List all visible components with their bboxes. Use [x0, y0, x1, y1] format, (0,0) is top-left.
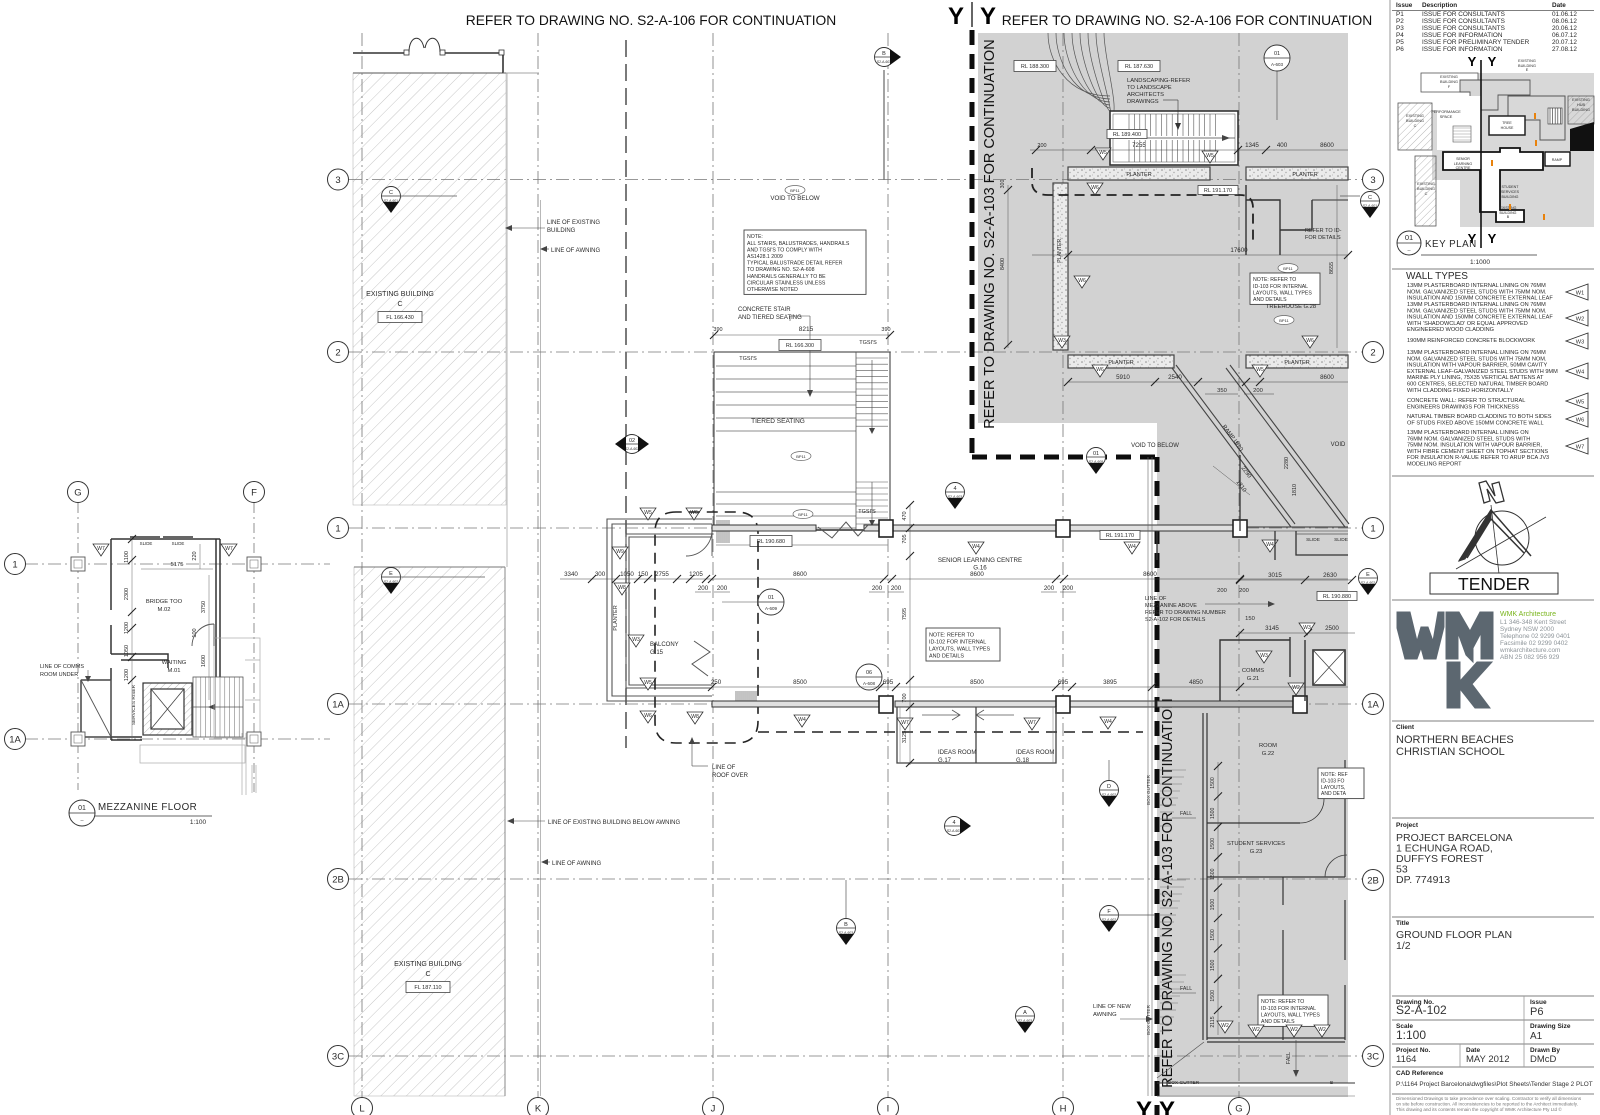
svg-text:This drawing and its contents: This drawing and its contents remain the… [1396, 1106, 1562, 1112]
slide door row1 grey [1296, 533, 1348, 535]
svg-text:FALL: FALL [1180, 811, 1192, 817]
mezz interior dims [124, 535, 213, 740]
svg-text:B: B [882, 51, 886, 57]
line of roof over dashed rect [655, 512, 758, 743]
svg-text:AND DETAILS: AND DETAILS [1253, 297, 1287, 303]
svg-text:SERVICES: SERVICES [1501, 190, 1520, 194]
svg-text:27.08.12: 27.08.12 [1552, 46, 1577, 53]
svg-text:GROUND FLOOR PLAN: GROUND FLOOR PLAN [1396, 929, 1512, 941]
svg-text:REFER TO DRAWING NO. S2-A-106: REFER TO DRAWING NO. S2-A-106 FOR CONTIN… [466, 13, 837, 28]
svg-text:200: 200 [698, 585, 709, 592]
grid line 2 [349, 351, 1362, 353]
svg-text:DP. 774913: DP. 774913 [1396, 874, 1450, 886]
svg-text:Y: Y [1136, 1097, 1152, 1115]
svg-text:HANDRAILS GENERALLY TO BE: HANDRAILS GENERALLY TO BE [747, 274, 826, 280]
svg-text:150: 150 [1245, 616, 1255, 622]
svg-text:Y: Y [1488, 231, 1497, 246]
concrete stair annotation [738, 307, 813, 397]
svg-text:W3: W3 [1058, 338, 1066, 344]
svg-text:Telephone 02 9299 0401: Telephone 02 9299 0401 [1500, 633, 1571, 640]
svg-text:wmkarchitecture.com: wmkarchitecture.com [1499, 647, 1560, 654]
svg-text:1:100: 1:100 [1396, 1028, 1426, 1042]
svg-text:TO LANDSCAPE: TO LANDSCAPE [1127, 85, 1172, 91]
svg-text:W9: W9 [616, 549, 624, 555]
svg-text:8400: 8400 [1000, 258, 1006, 270]
svg-text:200: 200 [1239, 588, 1249, 594]
svg-text:76MM NOM. GALVANIZED STEEL: 76MM NOM. GALVANIZED STEEL STUDS WITH [1407, 436, 1530, 442]
section marker B top [875, 48, 902, 67]
svg-text:01: 01 [1405, 233, 1413, 242]
comms room below [81, 680, 111, 737]
grid line I [887, 33, 889, 1098]
svg-text:LAYOUTS, WALL TYPES: LAYOUTS, WALL TYPES [1261, 1012, 1320, 1018]
client block [1396, 724, 1514, 758]
grid line 3 [349, 179, 1362, 181]
planter strip row2 right [1246, 355, 1348, 368]
issue table [1392, 2, 1594, 53]
svg-text:W6: W6 [644, 713, 652, 719]
svg-text:1164: 1164 [1396, 1054, 1416, 1065]
vertical dims right 8400 [1000, 180, 1012, 349]
svg-text:S2-A-603: S2-A-603 [877, 60, 891, 64]
corridor wall vertical [1203, 713, 1207, 1040]
wall type W5 [1407, 393, 1588, 410]
svg-text:W2: W2 [1576, 317, 1584, 323]
svg-text:OF STUDS FIXED ABOVE 150MM: OF STUDS FIXED ABOVE 150MM CONCRETE WALL [1407, 420, 1544, 426]
svg-text:DMcD: DMcD [1530, 1054, 1557, 1065]
svg-text:NOTE: REFER TO: NOTE: REFER TO [1253, 277, 1296, 283]
svg-text:06.07.12: 06.07.12 [1552, 32, 1577, 39]
grid bubble 3 right [1363, 169, 1384, 190]
grid bubble I bottom [878, 1098, 899, 1115]
svg-text:S2-A-603: S2-A-603 [947, 829, 961, 833]
svg-text:20.06.12: 20.06.12 [1552, 25, 1577, 32]
ramp dims [1213, 465, 1252, 495]
divider client [1392, 720, 1594, 722]
svg-text:W2: W2 [1292, 685, 1300, 691]
svg-text:KEY PLAN: KEY PLAN [1425, 239, 1477, 250]
svg-text:CONCRETE WALL: REFER TO ST: CONCRETE WALL: REFER TO STRUCTURAL [1407, 398, 1525, 404]
svg-text:PLANTER: PLANTER [1108, 360, 1133, 366]
glazing block balcony bottom [736, 691, 756, 706]
mezz grid line G [77, 503, 79, 790]
svg-text:INSULATION WITH VAPOUR BARR: INSULATION WITH VAPOUR BARRIER, 50MM CAV… [1407, 363, 1547, 369]
drawing no block [1396, 996, 1547, 1020]
svg-text:E: E [1366, 572, 1370, 578]
section marker 01 void [1087, 448, 1106, 475]
section marker F [1100, 906, 1119, 933]
WMK architecture text [1499, 611, 1571, 661]
svg-text:LINE OF: LINE OF [1145, 596, 1167, 602]
svg-text:NOTE:: NOTE: [747, 234, 763, 240]
svg-text:2755: 2755 [655, 571, 669, 578]
svg-text:1500: 1500 [1210, 929, 1216, 941]
section marker E right [1359, 569, 1378, 596]
mezz grid node squares [71, 557, 85, 571]
svg-text:2115: 2115 [1210, 1016, 1216, 1027]
svg-text:BP11: BP11 [796, 454, 806, 459]
RL 188.300 [1014, 61, 1056, 72]
svg-text:WITH CLADDING FIXED HORIZON: WITH CLADDING FIXED HORIZONTALLY [1407, 388, 1514, 394]
svg-text:COMMS: COMMS [1242, 668, 1264, 674]
svg-text:LAYOUTS,: LAYOUTS, [1321, 785, 1345, 791]
grid bubble J bottom [703, 1098, 724, 1115]
svg-text:INSULATION AND 150MM CONCRE: INSULATION AND 150MM CONCRETE EXTERNAL L… [1407, 296, 1553, 302]
svg-text:W5: W5 [1576, 400, 1584, 406]
svg-text:CIRCULAR STAINLESS UNLESS: CIRCULAR STAINLESS UNLESS [747, 280, 826, 286]
grid bubble 2 left [328, 342, 349, 363]
svg-text:06: 06 [866, 670, 872, 676]
svg-text:MAY 2012: MAY 2012 [1466, 1054, 1509, 1065]
svg-text:FOR DETAILS: FOR DETAILS [1305, 235, 1341, 241]
svg-text:S2-A-102 FOR DETAILS: S2-A-102 FOR DETAILS [1145, 617, 1206, 623]
grid bubble G bottom [1229, 1098, 1250, 1115]
ideas room G.17 label [938, 750, 976, 764]
svg-text:1050: 1050 [124, 645, 130, 657]
svg-text:8600: 8600 [1143, 571, 1157, 578]
svg-text:Drawn By: Drawn By [1530, 1047, 1560, 1054]
svg-text:13MM PLASTERBOARD INTERNAL: 13MM PLASTERBOARD INTERNAL LINING ON 76M… [1407, 350, 1546, 356]
vertical dims 8655 [1329, 185, 1337, 348]
svg-text:C: C [389, 190, 393, 196]
planter strip top left [1068, 167, 1210, 180]
svg-text:TIERED SEATING: TIERED SEATING [751, 418, 805, 425]
svg-text:D: D [1107, 784, 1111, 790]
svg-text:W6: W6 [1091, 185, 1099, 191]
svg-text:1600: 1600 [201, 655, 207, 667]
grid line 2B [349, 878, 1362, 880]
TGSI labels [739, 340, 877, 515]
mezz stairs [193, 677, 243, 737]
grid bubble K bottom [528, 1098, 549, 1115]
svg-text:13MM PLASTERBOARD INTERNAL: 13MM PLASTERBOARD INTERNAL LINING ON [1407, 430, 1529, 436]
svg-text:C: C [425, 971, 430, 978]
svg-text:A1: A1 [1530, 1031, 1543, 1042]
svg-text:AND DETAILS: AND DETAILS [1261, 1019, 1295, 1025]
svg-text:17600: 17600 [1230, 247, 1248, 254]
svg-text:BUILDING: BUILDING [1502, 195, 1519, 199]
glazing block row1/colJ [717, 520, 729, 543]
svg-text:W4: W4 [1128, 544, 1136, 550]
svg-text:LAYOUTS, WALL TYPES: LAYOUTS, WALL TYPES [1253, 290, 1312, 296]
fine print [1396, 1096, 1582, 1112]
grid bubble 1 right [1363, 518, 1384, 539]
svg-text:W4: W4 [1576, 370, 1584, 376]
section line 02 [625, 40, 627, 748]
svg-text:VOID TO BELOW: VOID TO BELOW [1131, 443, 1179, 449]
svg-text:IDEAS ROOM: IDEAS ROOM [1016, 750, 1054, 756]
svg-text:TGSI'S: TGSI'S [859, 340, 877, 346]
student services walls [1207, 760, 1345, 1042]
svg-text:WITH FIBRE CEMENT SHEET ON: WITH FIBRE CEMENT SHEET ON TOPHAT SECTIO… [1407, 449, 1548, 455]
grid bubble 3C right [1363, 1046, 1384, 1067]
section marker A bottom [1016, 1007, 1035, 1034]
svg-text:Dimensioned Drawings to take p: Dimensioned Drawings to take precedence … [1396, 1096, 1582, 1101]
svg-text:PERFORMANCE: PERFORMANCE [1431, 110, 1461, 114]
svg-text:W7: W7 [901, 720, 909, 726]
svg-text:CENTRE: CENTRE [1456, 166, 1471, 170]
svg-text:RL 188.300: RL 188.300 [1021, 64, 1049, 70]
RL 191.170 mid [1100, 531, 1140, 540]
svg-text:600 CENTRES, SELECTED NATUR: 600 CENTRES, SELECTED NATURAL TIMBER BOA… [1407, 382, 1548, 388]
svg-text:BP11: BP11 [1283, 266, 1293, 271]
svg-text:W7: W7 [1028, 720, 1036, 726]
svg-text:695: 695 [1058, 679, 1069, 686]
svg-text:W3: W3 [632, 637, 640, 643]
svg-text:P6: P6 [1530, 1006, 1543, 1018]
existing building C label (top) [366, 291, 434, 323]
svg-text:3: 3 [1370, 175, 1375, 186]
svg-text:BP11: BP11 [790, 188, 800, 193]
svg-text:W2: W2 [1290, 1027, 1298, 1033]
svg-text:200: 200 [1037, 143, 1046, 149]
grey band below box gutter [1157, 1087, 1348, 1098]
svg-text:1/2: 1/2 [1396, 940, 1411, 952]
svg-text:WMK Architecture: WMK Architecture [1500, 611, 1556, 618]
svg-text:W3: W3 [1576, 340, 1584, 346]
svg-text:NOTE: REFER TO: NOTE: REFER TO [929, 632, 974, 638]
svg-text:WAITING: WAITING [162, 660, 187, 666]
svg-text:BP11: BP11 [1279, 318, 1289, 323]
mezz grid bubbles [68, 482, 89, 503]
landscape stair [1110, 111, 1238, 165]
svg-text:300: 300 [595, 571, 606, 578]
svg-text:PLANTER: PLANTER [613, 605, 619, 630]
svg-text:RL 190.680: RL 190.680 [757, 539, 785, 545]
svg-text:1: 1 [335, 523, 340, 534]
svg-text:1500: 1500 [1210, 868, 1216, 880]
svg-text:W4: W4 [798, 717, 806, 723]
svg-text:SENIOR LEARNING CENTRE: SENIOR LEARNING CENTRE [938, 557, 1022, 564]
tender box [1430, 573, 1558, 594]
section line B vertical top [883, 70, 885, 180]
svg-text:INSULATION AND 150MM CONCRE: INSULATION AND 150MM CONCRETE EXTERNAL L… [1407, 315, 1553, 321]
svg-text:EXTERNAL LEAF-GALVANIZED STE: EXTERNAL LEAF-GALVANIZED STEEL STUDS WIT… [1407, 369, 1558, 375]
grey paved terrace top right [978, 33, 1348, 423]
svg-text:20.07.12: 20.07.12 [1552, 39, 1577, 46]
svg-text:Y: Y [1488, 54, 1497, 69]
svg-text:350: 350 [1217, 388, 1227, 394]
svg-text:ISSUE FOR CONSULTANTS: ISSUE FOR CONSULTANTS [1422, 25, 1505, 32]
wall type W4 [1407, 350, 1588, 394]
W markers row1/1A [968, 542, 984, 554]
row1 wall window zigzag [818, 522, 868, 538]
svg-text:1500: 1500 [1210, 777, 1216, 789]
section marker E left [382, 568, 401, 595]
svg-text:A-603: A-603 [1271, 62, 1284, 67]
planter vertical [1053, 183, 1068, 350]
svg-text:P4: P4 [1396, 32, 1404, 39]
svg-text:3C: 3C [1367, 1051, 1379, 1062]
svg-text:ISSUE FOR CONSULTANTS: ISSUE FOR CONSULTANTS [1422, 18, 1505, 25]
svg-text:BOX GUTTER: BOX GUTTER [1146, 774, 1151, 805]
WMK logo [1397, 612, 1493, 708]
title panel divider [1389, 0, 1391, 1115]
line of existing building note [505, 220, 600, 234]
svg-text:4: 4 [952, 820, 955, 826]
existing building C label (bottom) [394, 961, 462, 993]
svg-text:1200: 1200 [124, 669, 130, 681]
svg-text:150: 150 [638, 571, 649, 578]
svg-text:W3: W3 [1303, 625, 1311, 631]
svg-text:2: 2 [1370, 347, 1375, 358]
svg-text:BOX GUTTER: BOX GUTTER [1168, 1080, 1200, 1086]
svg-text:P6: P6 [1396, 46, 1404, 53]
mezzanine above dashed [1032, 168, 1253, 240]
line of awning (vertical) [540, 200, 542, 1096]
section marker 4 mid [946, 483, 965, 510]
svg-text:ID-103 FO: ID-103 FO [1321, 778, 1344, 784]
senior learning centre label [938, 557, 1022, 572]
tiered seating block [714, 352, 890, 545]
hatch ticks gutter [1160, 770, 1186, 1031]
svg-text:Date: Date [1466, 1047, 1480, 1054]
svg-text:FALL: FALL [1286, 1052, 1292, 1064]
svg-text:W5: W5 [1099, 150, 1107, 156]
svg-text:J: J [711, 1103, 716, 1114]
svg-text:C: C [1425, 192, 1428, 196]
oval tags seating [791, 452, 811, 461]
svg-text:S2-A-602: S2-A-602 [625, 447, 639, 451]
svg-text:ALL STAIRS, BALUSTRADES, HA: ALL STAIRS, BALUSTRADES, HANDRAILS [747, 241, 850, 247]
svg-text:390: 390 [881, 327, 890, 333]
svg-text:TYPICAL BALUSTRADE DETAIL R: TYPICAL BALUSTRADE DETAIL REFER [747, 261, 843, 267]
svg-text:L1 346-348 Kent Street: L1 346-348 Kent Street [1500, 619, 1566, 626]
wall type W1 [1407, 283, 1588, 302]
divider project [1392, 817, 1594, 819]
svg-text:1: 1 [1370, 523, 1375, 534]
grid bubble L bottom [352, 1098, 373, 1115]
svg-text:G.21: G.21 [1247, 676, 1260, 682]
mezz title [69, 800, 212, 826]
landscape contour fan [1048, 33, 1114, 117]
svg-text:13MM PLASTERBOARD INTERNAL: 13MM PLASTERBOARD INTERNAL LINING ON 76M… [1407, 283, 1546, 289]
grid bubble 1A right [1363, 694, 1384, 715]
svg-text:VOID TO BELOW: VOID TO BELOW [770, 195, 819, 202]
svg-text:8600: 8600 [1320, 374, 1334, 381]
section marker D [1100, 781, 1119, 808]
svg-text:W5: W5 [1206, 153, 1214, 159]
svg-text:W5: W5 [1256, 367, 1264, 373]
project no block [1396, 1044, 1560, 1067]
box gutter labels [1146, 774, 1333, 1086]
svg-text:FL 166.430: FL 166.430 [386, 315, 414, 321]
svg-text:3015: 3015 [1268, 572, 1282, 579]
svg-text:8600: 8600 [970, 571, 984, 578]
ideas rooms G.17 G.18 [897, 707, 1056, 763]
svg-text:W2: W2 [1318, 1027, 1326, 1033]
svg-text:W1: W1 [1576, 291, 1584, 297]
svg-text:WITH ‘SHADOWCLAD’ OR EQUAL: WITH ‘SHADOWCLAD’ OR EQUAL APPROVED [1407, 321, 1528, 327]
row 1A wall [712, 701, 1297, 707]
svg-text:--: -- [80, 818, 84, 824]
svg-text:ABN 25 082 956 929: ABN 25 082 956 929 [1500, 654, 1560, 661]
svg-text:01.06.12: 01.06.12 [1552, 11, 1577, 18]
existing building C (bottom) hatched [354, 567, 505, 1096]
dim chain row1A [708, 679, 1348, 691]
svg-text:W3: W3 [1260, 653, 1268, 659]
svg-text:1500: 1500 [1210, 899, 1216, 911]
svg-text:STUDENT SERVICES: STUDENT SERVICES [1227, 841, 1285, 847]
svg-text:200: 200 [1253, 388, 1263, 394]
wall type W7 [1407, 430, 1588, 468]
dim chain 3145/2500 [1236, 616, 1355, 637]
svg-text:--: -- [1407, 248, 1411, 254]
svg-text:TGSI'S: TGSI'S [858, 509, 876, 515]
svg-text:Title: Title [1396, 920, 1410, 927]
svg-text:400: 400 [1277, 142, 1288, 149]
svg-text:K: K [535, 1103, 542, 1114]
svg-text:8655: 8655 [1329, 262, 1335, 274]
svg-text:P2: P2 [1396, 18, 1404, 25]
wall type W2 [1407, 302, 1588, 333]
svg-text:SPACE: SPACE [1440, 115, 1453, 119]
svg-text:A: A [1023, 1010, 1027, 1016]
vertical dims x908 [902, 501, 914, 767]
treehouse ovals [1278, 264, 1298, 273]
svg-text:LINE OF AWNING: LINE OF AWNING [552, 861, 601, 867]
svg-text:W6: W6 [1096, 367, 1104, 373]
divider scale [1392, 1019, 1594, 1021]
svg-text:STUDENT: STUDENT [1502, 185, 1520, 189]
elevator shaft [143, 683, 192, 735]
svg-text:Client: Client [1396, 724, 1415, 731]
grid bubble 2B right [1363, 870, 1384, 891]
grid line H [1062, 33, 1064, 1098]
svg-text:PLANTER: PLANTER [1284, 360, 1309, 366]
svg-text:01: 01 [1274, 51, 1280, 57]
title block [1396, 920, 1512, 952]
svg-text:EXISTING: EXISTING [1417, 182, 1435, 186]
match line Y horizontal [972, 455, 1157, 460]
svg-text:Y: Y [980, 3, 996, 30]
svg-text:200: 200 [717, 585, 728, 592]
svg-text:Issue: Issue [1530, 999, 1547, 1006]
ideas room G.18 label [1016, 750, 1054, 764]
line of existing building below awning note [507, 818, 680, 826]
svg-text:ENGINEERS DRAWINGS FOR THIC: ENGINEERS DRAWINGS FOR THICKNESS [1407, 404, 1519, 410]
dim chain 3015/2630 [1217, 572, 1356, 594]
svg-text:2500: 2500 [1325, 625, 1339, 632]
svg-text:AWNING: AWNING [1093, 1012, 1117, 1018]
svg-text:BUILDING: BUILDING [1417, 187, 1435, 191]
svg-text:TGSI'S: TGSI'S [739, 356, 757, 362]
svg-text:RL 189.400: RL 189.400 [1113, 132, 1141, 138]
svg-text:W4: W4 [972, 544, 980, 550]
double door to existing building C [409, 38, 440, 52]
match line Y bottom [1155, 457, 1160, 1115]
svg-text:7595: 7595 [902, 608, 908, 620]
mezz door arc [192, 624, 214, 646]
svg-text:W6: W6 [1078, 278, 1086, 284]
svg-text:A-608: A-608 [863, 681, 876, 686]
svg-text:PLANTER.: PLANTER. [1057, 237, 1063, 262]
svg-text:CHRISTIAN SCHOOL: CHRISTIAN SCHOOL [1396, 746, 1505, 758]
awning hip diagonal [1157, 1042, 1204, 1078]
svg-text:EXISTING: EXISTING [1572, 98, 1590, 102]
room G.22 label [1259, 743, 1277, 757]
svg-text:01: 01 [78, 805, 86, 812]
svg-text:3C: 3C [332, 1051, 344, 1062]
svg-text:1200: 1200 [124, 622, 130, 634]
svg-text:2B: 2B [332, 874, 344, 885]
room G.22 door wall [1207, 799, 1324, 823]
svg-text:AND DETAILS: AND DETAILS [929, 653, 964, 659]
RL 187.630 [1118, 61, 1160, 72]
svg-text:Project: Project [1396, 822, 1419, 829]
svg-text:01: 01 [768, 595, 774, 601]
svg-text:TREE: TREE [1502, 121, 1512, 125]
